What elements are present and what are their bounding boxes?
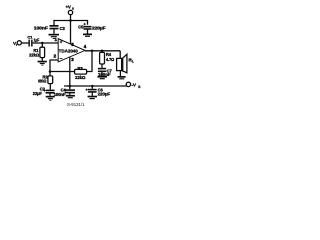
label C1 (27, 35, 33, 40)
svg-text:S: S (138, 85, 140, 89)
wire R3 to output node (87, 51, 92, 72)
wire Vi to C1 (21, 42, 28, 44)
value 220µF (C6) (98, 91, 111, 96)
wire output (85, 50, 120, 52)
terminal +Vs (68, 10, 72, 20)
label TDA2040 (59, 48, 78, 54)
pin 2 (54, 54, 57, 59)
wire C1 to pin 1 (33, 42, 59, 44)
junction input node (41, 42, 44, 45)
ground (C3) (49, 29, 60, 39)
ground (C2) (46, 93, 55, 100)
label C3 (60, 26, 66, 31)
value 22kΩ (R3) (75, 75, 86, 80)
plus mark (C5) (83, 23, 86, 25)
resistor R3 (75, 69, 87, 74)
minus input mark (60, 58, 63, 60)
capacitor C6 (88, 86, 97, 93)
label +Vs (66, 4, 74, 10)
svg-text:1µF: 1µF (34, 38, 40, 43)
svg-text:5: 5 (71, 42, 74, 47)
svg-text:TDA2040: TDA2040 (59, 48, 78, 54)
wire pin 5 to +Vs rail (70, 21, 72, 45)
resistor R2 (48, 72, 53, 90)
label -Vs (131, 83, 140, 90)
svg-text:-V: -V (131, 83, 136, 88)
pin 1 (55, 37, 58, 42)
label R2 (43, 74, 49, 79)
label C5 (78, 25, 84, 30)
ground (C7) (97, 72, 107, 79)
junction -Vs/C4 (69, 85, 72, 88)
svg-text:C1: C1 (27, 35, 33, 40)
capacitor C3 (50, 25, 59, 29)
value 220µF (C5) (92, 26, 106, 31)
svg-text:L: L (132, 60, 134, 64)
label C6 (98, 88, 104, 93)
svg-text:C5: C5 (78, 25, 84, 30)
capacitor C5 (84, 26, 92, 30)
terminal Vi (17, 41, 21, 45)
op-amp U1 TDA2040 (58, 39, 85, 62)
value 100nF (C3) (34, 26, 49, 31)
ground (speaker) (118, 71, 126, 80)
svg-text:+V: +V (66, 4, 71, 9)
ground (C6) (88, 93, 97, 100)
label C7 (107, 68, 113, 73)
svg-text:S: S (72, 6, 74, 10)
terminal -Vs (126, 82, 130, 86)
capacitor C1 (28, 40, 32, 47)
svg-text:220µF: 220µF (98, 91, 111, 96)
svg-text:3: 3 (71, 57, 74, 62)
svg-text:R3: R3 (78, 66, 84, 71)
ground (C4) (66, 93, 75, 98)
svg-text:C3: C3 (60, 26, 66, 31)
pin 4 (84, 44, 87, 49)
junction -Vs/C6 (91, 85, 94, 88)
wire feedback node to R3 (50, 71, 75, 73)
pin 3 (71, 57, 74, 62)
label R1 (33, 48, 39, 53)
capacitor C4 (65, 86, 75, 93)
label C2 (40, 86, 46, 91)
label R3 (78, 66, 84, 71)
svg-text:4: 4 (84, 44, 87, 49)
label RL (129, 57, 134, 63)
value 4.7Ω (106, 57, 115, 62)
value 1µF (34, 38, 40, 43)
plus mark (C2) (43, 89, 45, 91)
svg-text:2: 2 (54, 54, 57, 59)
resistor R1 (40, 43, 45, 61)
junction +Vs rail (69, 19, 72, 22)
svg-text:22kΩ: 22kΩ (75, 75, 86, 80)
capacitor C2 (46, 90, 55, 94)
junction output/Zobel (101, 50, 104, 53)
svg-text:4.7Ω: 4.7Ω (106, 57, 115, 62)
wire +Vs rail (54, 21, 88, 26)
plus mark (C6) (86, 89, 88, 91)
capacitor C7 (98, 68, 106, 72)
pin 5 (71, 42, 74, 47)
wire pin 2 (50, 60, 58, 72)
svg-text:220µF: 220µF (92, 26, 106, 31)
value 22kΩ (R1) (29, 52, 40, 57)
junction output/R3 (91, 50, 94, 53)
plus input mark (60, 41, 63, 44)
value 100nF (C4) (54, 92, 67, 97)
svg-text:680Ω: 680Ω (38, 78, 47, 83)
svg-text:100nF: 100nF (54, 92, 67, 97)
value 680Ω (38, 78, 47, 83)
value 22µF (33, 91, 43, 96)
junction feedback node (49, 70, 52, 73)
svg-text:22kΩ: 22kΩ (29, 52, 40, 57)
ground (R1) (38, 61, 47, 66)
value 100nF (C7) (98, 72, 111, 77)
figure code S-9131/1 (67, 102, 85, 107)
wire pin 3 to -Vs rail (69, 57, 71, 86)
svg-text:22µF: 22µF (33, 91, 43, 96)
label Vi (13, 41, 17, 47)
svg-text:S-9131/1: S-9131/1 (67, 102, 85, 107)
wire -Vs rail (64, 85, 127, 87)
label R4 (106, 52, 112, 57)
label C4 (61, 87, 67, 92)
speaker RL (117, 51, 127, 73)
svg-text:100nF: 100nF (34, 26, 49, 31)
svg-text:1: 1 (55, 37, 58, 42)
resistor R4 (100, 51, 105, 68)
ground (C5) (83, 30, 92, 37)
